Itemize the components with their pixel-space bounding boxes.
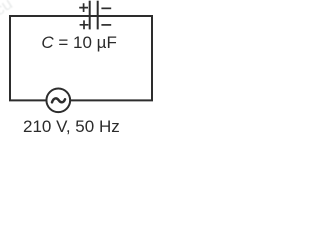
capacitor C1 plate left bbox=[89, 1, 91, 30]
svg-text:C = 10 µF: C = 10 µF bbox=[41, 33, 116, 52]
plus sign bottom bbox=[80, 20, 89, 29]
plus sign top bbox=[79, 3, 88, 12]
svg-text:210 V, 50 Hz: 210 V, 50 Hz bbox=[23, 117, 120, 136]
AC sine symbol bbox=[52, 98, 65, 102]
AC source V1 circle bbox=[46, 88, 70, 112]
minus sign bottom bbox=[101, 24, 111, 26]
capacitor C1 plate right bbox=[97, 1, 99, 30]
wire loop bbox=[10, 16, 152, 100]
minus sign top bbox=[101, 7, 111, 9]
